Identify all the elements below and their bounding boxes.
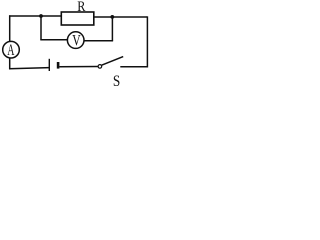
wire battery to switch <box>59 66 98 68</box>
node junction left (top wire / voltmeter branch) <box>39 14 43 18</box>
battery short thick plate (negative) <box>57 62 60 69</box>
svg-text:A: A <box>7 42 14 59</box>
voltmeter V (circle) <box>67 32 84 49</box>
battery long plate (positive) <box>48 59 50 71</box>
wire voltmeter branch right vertical <box>111 17 113 41</box>
wire voltmeter branch right horizontal <box>84 40 113 42</box>
wire voltmeter branch left horizontal <box>40 39 67 41</box>
wire resistor right to top-right corner <box>94 16 147 18</box>
resistor R (rectangle) <box>61 12 94 25</box>
svg-text:V: V <box>72 32 81 49</box>
wire right vertical (top-right corner to bottom-right corner) <box>146 16 148 67</box>
wire left vertical (ammeter bottom to bottom-left corner) <box>9 58 11 69</box>
wire voltmeter branch left vertical <box>40 16 42 40</box>
wire left vertical (corner down to ammeter top) <box>9 15 11 41</box>
ammeter A (circle) <box>3 41 20 58</box>
switch S lever (open blade) <box>102 57 124 66</box>
svg-text:R: R <box>77 0 85 15</box>
wire top-left horizontal (corner to resistor) <box>9 15 62 17</box>
wire switch right stub to bottom-right corner <box>120 66 148 68</box>
switch S pivot contact (small circle) <box>98 65 102 69</box>
svg-text:S: S <box>113 73 120 87</box>
wire bottom-left horizontal (corner to battery) <box>9 68 49 69</box>
node junction right (top wire / voltmeter branch) <box>110 15 114 19</box>
